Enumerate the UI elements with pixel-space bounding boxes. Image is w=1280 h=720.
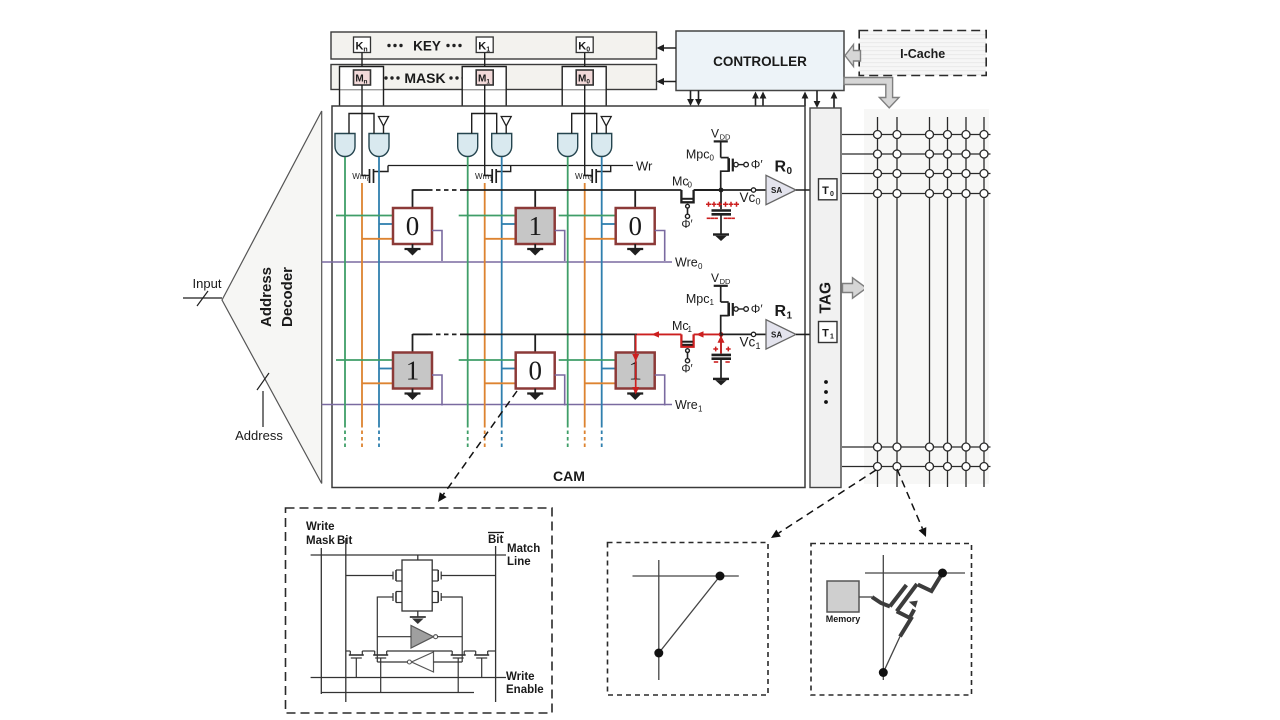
wire Mn column line <box>362 85 370 176</box>
wire mask bracket group n <box>349 114 374 134</box>
wire blue stub row1 col0 <box>602 368 616 370</box>
wire K0 to M0 <box>584 53 586 71</box>
1T1M node A <box>938 569 947 578</box>
svg-text:R: R <box>775 303 787 320</box>
svg-text:DD: DD <box>720 133 731 142</box>
wire green stub row1 coln <box>336 359 393 361</box>
wire green stub row0 col1 <box>459 215 516 217</box>
AND gate G0a <box>558 134 578 157</box>
svg-text:Mc: Mc <box>672 175 689 189</box>
wire cell to Wre row0 col1 (purple) <box>555 231 565 262</box>
inverter INV0 <box>601 117 611 134</box>
svg-text:0: 0 <box>698 262 703 271</box>
arrow controller to KEY <box>657 44 677 51</box>
svg-text:TAG: TAG <box>818 282 835 314</box>
CAM array box <box>332 106 805 488</box>
inset mask gate line <box>321 692 474 694</box>
svg-text:I-Cache: I-Cache <box>900 47 945 61</box>
wire mask bracket group 1 <box>472 114 497 134</box>
mask cell surround wires group n <box>340 67 384 134</box>
wire green stub row1 col1 <box>459 359 516 361</box>
I-Cache <box>859 31 986 76</box>
svg-text:Φ′: Φ′ <box>681 219 692 231</box>
transistor Mpc0 (PMOS) <box>686 148 763 191</box>
inset access row wires <box>346 650 496 652</box>
inset bit line <box>345 538 347 702</box>
inset cross-coupled inverter A (gray) <box>411 626 438 649</box>
red current arrows row 1 <box>632 331 724 394</box>
svg-text:R: R <box>775 159 787 176</box>
capacitor charge marks row 1 <box>713 347 730 362</box>
node label VC1 <box>740 334 761 351</box>
svg-text:0: 0 <box>586 79 590 86</box>
wire cell to Wre row1 col1 (purple) <box>555 375 565 406</box>
wire blue stub row0 col1 <box>502 223 516 225</box>
crossbar vertical lines <box>878 117 985 487</box>
wire orange stub row0 coln <box>362 238 393 240</box>
inset labels <box>306 521 544 696</box>
crossbar array background <box>864 109 989 484</box>
svg-text:Wr: Wr <box>636 159 653 174</box>
MASK register <box>331 65 657 90</box>
crosspoint node A <box>716 572 725 581</box>
wire cell to Wre row0 col0 (purple) <box>655 231 665 262</box>
svg-text:Write: Write <box>306 521 335 533</box>
wire blue stub row1 col1 <box>502 368 516 370</box>
capacitor charge marks row 0 <box>706 202 739 219</box>
inset match line <box>311 554 506 556</box>
svg-text:Mpc: Mpc <box>686 148 710 162</box>
1T1M node B <box>879 668 888 677</box>
1T1M horizontal wire <box>865 572 965 574</box>
input port <box>183 276 222 306</box>
tag bit T0 <box>819 179 838 200</box>
key bit K_0 <box>576 37 593 54</box>
transistor Wm_1 <box>475 166 511 184</box>
svg-text:0: 0 <box>628 211 642 241</box>
wire match-line riser row0 col0 <box>634 190 636 209</box>
svg-text:M: M <box>355 74 363 85</box>
ellipsis below T1 <box>824 380 828 404</box>
svg-text:0: 0 <box>586 47 590 54</box>
wire orange stub row0 col0 <box>585 238 616 240</box>
svg-text:n: n <box>363 47 367 54</box>
transistor Q (rotated NMOS) <box>872 573 943 637</box>
AND gate G0b <box>592 134 612 157</box>
svg-text:1: 1 <box>830 334 834 341</box>
svg-text:0: 0 <box>406 211 420 241</box>
inset write enable line <box>311 677 506 679</box>
TAG column <box>810 108 841 488</box>
AND gate Gna <box>335 134 355 157</box>
svg-text:Input: Input <box>193 276 222 291</box>
mask bit M_0 <box>576 70 593 86</box>
inset bit-bar line <box>495 546 497 702</box>
mask cell surround wires group 0 <box>562 67 606 134</box>
inset box: crosspoint detail <box>608 543 769 696</box>
word line Wre1 <box>322 398 703 414</box>
AND gate Gnb <box>369 134 389 157</box>
svg-text:n: n <box>367 177 370 183</box>
capacitor C0 <box>712 190 732 234</box>
inset pass transistor T1 <box>349 651 364 678</box>
svg-text:Bit: Bit <box>337 535 353 547</box>
tag bit T1 <box>819 322 838 343</box>
svg-text:0: 0 <box>830 191 834 198</box>
svg-text:DD: DD <box>720 277 731 286</box>
wire green stub row1 col0 <box>559 359 616 361</box>
svg-text:Enable: Enable <box>506 684 544 696</box>
wire blue stub row0 coln <box>379 223 393 225</box>
wire blue stub row0 col0 <box>602 223 616 225</box>
svg-text:1: 1 <box>688 325 693 334</box>
inset match transistor M1 <box>346 570 402 581</box>
svg-text:0: 0 <box>688 181 693 190</box>
svg-text:K: K <box>478 41 486 53</box>
svg-text:Wre: Wre <box>675 398 698 412</box>
memory cell row1 col1 value 0 <box>516 353 555 389</box>
wire match-line riser row0 col1 <box>534 190 536 209</box>
transistor Wm_n <box>352 166 388 184</box>
svg-text:KEY: KEY <box>413 39 441 54</box>
svg-text:Memory: Memory <box>826 614 861 624</box>
memory cell row0 coln value 0 <box>393 208 432 244</box>
label R1 <box>775 303 793 322</box>
svg-text:Wre: Wre <box>675 256 698 270</box>
svg-text:0: 0 <box>756 197 761 207</box>
ground capacitor row 0 <box>713 235 729 242</box>
wire node to SA <box>721 332 766 336</box>
sense amp SA1 <box>766 320 796 349</box>
wire match-line riser row0 coln <box>412 190 414 209</box>
inset box: CAM cell schematic <box>286 508 553 713</box>
wire green stub row0 coln <box>336 215 393 217</box>
memory cell row1 col0 value 1 <box>616 353 655 389</box>
svg-text:MASK: MASK <box>404 70 445 86</box>
svg-text:SA: SA <box>771 330 782 339</box>
dashed callout cell to CAM-cell inset <box>438 391 517 502</box>
arrow SA1 to T1 <box>796 331 818 338</box>
inset write-mask line <box>320 548 322 694</box>
word line Wre0 <box>322 256 703 272</box>
svg-text:Wm: Wm <box>352 172 367 181</box>
search line SL1 (green) <box>467 157 469 450</box>
search line SLbar1 (blue) <box>501 157 503 450</box>
wire cell to Wre row0 coln (purple) <box>432 231 442 262</box>
wire blue stub row1 coln <box>379 368 393 370</box>
search line SLn (green) <box>344 157 346 450</box>
transistor Mc0 <box>672 175 694 232</box>
svg-text:V: V <box>711 127 719 141</box>
svg-text:Bit: Bit <box>488 534 504 546</box>
transistor Wm_0 <box>575 166 611 184</box>
svg-text:Mpc: Mpc <box>686 292 710 306</box>
wire Mc0 to node <box>694 189 721 191</box>
bit write line B0 (orange) <box>584 183 586 450</box>
svg-text:1: 1 <box>710 298 715 307</box>
wire Kn to Mn <box>361 53 363 71</box>
inset match transistor M4 <box>432 592 462 603</box>
arrow SA0 to T0 <box>796 187 818 194</box>
svg-text:K: K <box>578 41 586 53</box>
wire M1 column line <box>485 85 493 176</box>
svg-text:1: 1 <box>698 405 703 414</box>
wire node to SA <box>721 188 766 192</box>
svg-text:Wm: Wm <box>475 172 490 181</box>
key bit K_n <box>354 37 371 54</box>
svg-text:CAM: CAM <box>553 468 585 484</box>
crosspoint horizontal wire <box>633 575 739 577</box>
controller U1 <box>676 31 844 91</box>
inset box: memory transistor crosspoint <box>811 544 972 696</box>
ground row0 coln <box>405 244 421 256</box>
KEY register <box>331 32 657 59</box>
inset latch feedback wires <box>377 597 462 663</box>
mask bit M_n <box>354 70 371 86</box>
crossbar junction nodes <box>874 131 989 471</box>
inverter INV1 <box>501 117 511 134</box>
memory element box <box>826 581 861 624</box>
svg-text:0: 0 <box>528 356 542 386</box>
wire source to node B <box>883 637 900 673</box>
svg-text:T: T <box>822 185 829 197</box>
svg-text:1: 1 <box>486 79 490 86</box>
ground row1 col0 <box>627 389 643 401</box>
svg-text:SA: SA <box>771 186 782 195</box>
svg-text:Line: Line <box>507 556 531 568</box>
ground row1 coln <box>405 389 421 401</box>
svg-text:Mask: Mask <box>306 535 335 547</box>
inset pass transistor T2 <box>373 651 388 693</box>
search line SLbar0 (blue) <box>601 157 603 450</box>
match line ML1 <box>413 333 638 335</box>
block arrow controller to crossbar <box>844 78 899 108</box>
match line ML0 <box>413 189 682 191</box>
svg-text:Φ′: Φ′ <box>751 302 764 316</box>
svg-text:0: 0 <box>787 166 793 177</box>
svg-text:Address: Address <box>235 428 283 443</box>
capacitor C1 <box>712 334 732 378</box>
block arrow I-Cache to controller <box>845 45 861 67</box>
crosspoint vertical wire <box>658 560 660 680</box>
node VC1 junction <box>719 332 724 337</box>
svg-text:1: 1 <box>406 356 420 386</box>
wire K1 to M1 <box>484 53 486 71</box>
search line SLbarn (blue) <box>378 157 380 450</box>
dashed callout crossbar to 1T1M inset <box>897 469 926 537</box>
svg-text:n: n <box>364 79 368 86</box>
svg-text:Φ′: Φ′ <box>751 158 764 172</box>
wire green stub row0 col0 <box>559 215 616 217</box>
bit write line B1 (orange) <box>484 183 486 450</box>
svg-text:Write: Write <box>506 671 535 683</box>
memory cell row0 col1 value 1 <box>516 208 555 244</box>
match line ML1 red highlighted segment <box>637 333 681 335</box>
svg-text:V: V <box>711 271 719 285</box>
crossbar horizontal lines <box>842 135 991 467</box>
wire orange stub row0 col1 <box>485 238 516 240</box>
wire match-line riser row1 coln <box>412 334 414 353</box>
dashed callout crossbar to crosspoint inset <box>771 470 876 538</box>
AND gate G1b <box>492 134 512 157</box>
transistor Q body arrow <box>909 601 918 608</box>
bit write line Bn (orange) <box>361 183 363 450</box>
svg-text:T: T <box>822 328 829 340</box>
address port <box>235 373 283 443</box>
address decoder <box>222 111 322 484</box>
svg-text:CONTROLLER: CONTROLLER <box>713 54 807 69</box>
wire orange stub row1 col0 <box>585 382 616 384</box>
svg-text:K: K <box>356 41 364 53</box>
wire M0 column line <box>585 85 593 176</box>
label R0 <box>775 159 793 178</box>
transistor Mc1 <box>672 319 694 376</box>
svg-text:Decoder: Decoder <box>279 267 296 327</box>
controller-CAM control arrows <box>687 91 837 108</box>
ground row1 col1 <box>527 389 543 401</box>
transistor Mpc1 (PMOS) <box>686 292 763 335</box>
svg-text:1: 1 <box>528 211 542 241</box>
block arrow TAG to crossbar <box>843 278 867 298</box>
power VDD row 0 <box>711 127 731 158</box>
inset match stack <box>402 555 432 611</box>
wire orange stub row1 coln <box>362 382 393 384</box>
search line SL0 (green) <box>567 157 569 450</box>
inverter INVn <box>379 117 389 134</box>
svg-text:M: M <box>478 74 486 85</box>
wire Mc1 to node <box>694 333 721 335</box>
wire cell to Wre row1 coln (purple) <box>432 375 442 406</box>
memory cell row1 coln value 1 <box>393 353 432 389</box>
wire orange stub row1 col1 <box>485 382 516 384</box>
crosspoint connection link <box>659 576 720 653</box>
1T1M vertical wire <box>882 555 884 680</box>
ground capacitor row 1 <box>713 379 729 386</box>
svg-text:Address: Address <box>258 267 275 327</box>
wire match-line riser row1 col0 <box>634 334 636 353</box>
arrow controller to MASK <box>657 78 677 85</box>
power VDD row 1 <box>711 271 731 302</box>
wire match-line riser row1 col1 <box>534 334 536 353</box>
inset match transistor M3 <box>377 592 402 603</box>
svg-text:1: 1 <box>787 310 793 321</box>
sense amp SA0 <box>766 175 796 204</box>
write line Wr <box>388 159 653 174</box>
svg-text:1: 1 <box>756 341 761 351</box>
wire memory to gate <box>859 596 872 598</box>
mask bit M_1 <box>476 70 493 86</box>
svg-text:Wm: Wm <box>575 172 590 181</box>
node label VC0 <box>740 190 761 207</box>
key bit K_1 <box>476 37 493 54</box>
wire cell to Wre row1 col0 (purple) <box>655 375 665 406</box>
memory cell row0 col0 value 0 <box>616 208 655 244</box>
inset pass transistor T3 <box>451 651 466 693</box>
svg-text:Φ′: Φ′ <box>681 363 692 375</box>
crosspoint node B <box>654 649 663 658</box>
svg-text:1: 1 <box>486 47 490 54</box>
svg-text:0: 0 <box>710 154 715 163</box>
svg-text:Match: Match <box>507 543 540 555</box>
inset ground <box>410 611 426 624</box>
AND gate G1a <box>458 134 478 157</box>
inset match transistor M2 <box>432 570 495 581</box>
inset cross-coupled inverter B (white) <box>407 652 433 672</box>
svg-text:Vc: Vc <box>740 334 756 349</box>
inset pass transistor T4 <box>474 651 489 678</box>
ground row0 col0 <box>627 244 643 256</box>
node VC0 junction <box>719 188 724 193</box>
wire mask bracket group 0 <box>572 114 597 134</box>
svg-text:Mc: Mc <box>672 319 689 333</box>
svg-text:Vc: Vc <box>740 190 756 205</box>
mask cell surround wires group 1 <box>462 67 506 134</box>
ground row0 col1 <box>527 244 543 256</box>
svg-text:M: M <box>578 74 586 85</box>
